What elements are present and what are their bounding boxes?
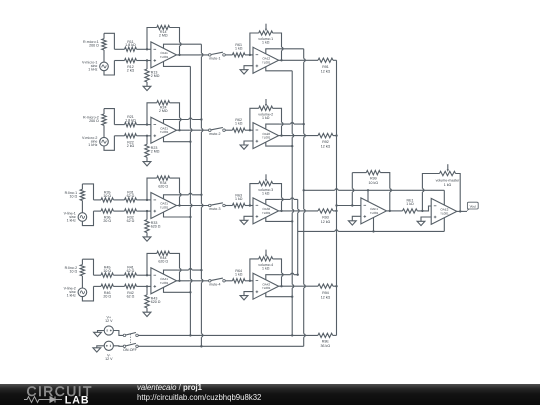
svg-text:Vout: Vout — [470, 204, 476, 208]
resistor R32 — [113, 209, 150, 223]
op-amp OA12 — [253, 47, 279, 73]
svg-text:1 kΩ: 1 kΩ — [444, 183, 452, 187]
svg-text:20 Ω: 20 Ω — [103, 219, 111, 223]
footer bar — [0, 384, 540, 405]
svg-text:R94: R94 — [322, 291, 329, 295]
op-amp OAE2 — [431, 198, 457, 224]
svg-text:620 Ω: 620 Ω — [158, 260, 168, 264]
ground — [143, 237, 151, 241]
svg-text:R92: R92 — [322, 140, 329, 144]
potentiometer volume-master — [422, 164, 461, 212]
switch mute-2 — [209, 128, 226, 136]
svg-text:62 Ω: 62 Ω — [127, 219, 135, 223]
svg-text:1 kHz: 1 kHz — [67, 294, 76, 298]
svg-text:2 MΩ: 2 MΩ — [159, 109, 168, 113]
svg-text:36 kΩ: 36 kΩ — [321, 344, 331, 348]
svg-text:12 V: 12 V — [105, 357, 113, 361]
wire — [104, 61, 114, 76]
wire V+ stub — [266, 199, 298, 204]
resistor R36 — [94, 209, 114, 223]
ground — [94, 331, 105, 337]
svg-text:TL081: TL081 — [160, 281, 169, 285]
op-amp OA42 — [253, 273, 279, 299]
ground — [143, 312, 151, 316]
resistor R46 — [94, 284, 114, 298]
wire V- stub — [164, 137, 192, 143]
svg-text:1 kHz: 1 kHz — [88, 143, 97, 147]
svg-text:62 Ω: 62 Ω — [127, 194, 135, 198]
wire — [177, 129, 209, 131]
potentiometer volume-3 — [250, 174, 283, 212]
switch mute-1 — [209, 52, 226, 60]
svg-text:1 kHz: 1 kHz — [67, 218, 76, 222]
svg-text:TL081: TL081 — [370, 211, 379, 215]
svg-text:12 kΩ: 12 kΩ — [321, 295, 331, 299]
wire V- stub — [266, 293, 294, 298]
svg-text:1 kΩ: 1 kΩ — [262, 191, 270, 195]
svg-text:mute-4: mute-4 — [209, 282, 220, 286]
svg-text:TL081: TL081 — [262, 136, 271, 140]
svg-text:10 Ω: 10 Ω — [103, 194, 111, 198]
ground — [93, 346, 104, 352]
wire summing V+ rail — [303, 189, 445, 191]
wire bus column 2b — [297, 199, 299, 274]
op-amp OAE1 — [361, 198, 387, 224]
svg-text:620 Ω: 620 Ω — [158, 184, 168, 188]
svg-text:62 Ω: 62 Ω — [127, 269, 135, 273]
resistor R13 — [145, 59, 160, 86]
resistor R9E — [318, 333, 337, 348]
svg-text:TL081: TL081 — [262, 211, 271, 215]
resistor R-line-2 — [65, 259, 85, 288]
wire OAE1 minus input — [337, 205, 361, 207]
resistor R61 — [225, 43, 250, 57]
svg-text:10 Ω: 10 Ω — [70, 194, 78, 198]
wire — [82, 184, 93, 200]
wire — [177, 280, 209, 282]
wire mix bus — [335, 60, 337, 335]
wire V- bus column 2 — [291, 71, 293, 337]
resistor R62 — [225, 118, 250, 132]
svg-text:620 Ω: 620 Ω — [151, 300, 161, 304]
voltage source V- — [104, 341, 113, 361]
resistor R94 — [279, 284, 338, 299]
wire — [104, 136, 114, 151]
svg-text:TL081: TL081 — [160, 55, 169, 59]
wire crossing hops — [178, 42, 425, 337]
output flag Vout — [457, 202, 478, 211]
wire — [82, 259, 93, 275]
wire V+ stub — [164, 118, 203, 123]
resistor R21 — [114, 115, 150, 127]
svg-text:12 V: 12 V — [105, 319, 113, 323]
op-amp OA21 — [151, 117, 177, 143]
wire V+ stub — [443, 190, 445, 205]
svg-text:R9E: R9E — [322, 340, 330, 344]
wire — [249, 280, 253, 282]
wire — [177, 205, 209, 207]
wire — [104, 109, 114, 125]
switch mute-3 — [209, 203, 226, 211]
wire — [113, 331, 123, 336]
resistor R12 — [114, 58, 150, 72]
ground — [240, 141, 253, 149]
wire — [177, 54, 209, 56]
svg-text:1.8 kΩ: 1.8 kΩ — [125, 43, 136, 47]
resistor R99 — [351, 170, 391, 212]
resistor R11 — [114, 40, 150, 52]
svg-text:1 kΩ: 1 kΩ — [262, 116, 270, 120]
wire V+ stub — [266, 274, 299, 280]
op-amp OA32 — [253, 198, 279, 224]
wire V- stub — [164, 62, 191, 67]
resistor R-micro-2 — [83, 109, 106, 138]
svg-text:ON-OFF: ON-OFF — [123, 348, 138, 352]
voltage source V-line-1 — [64, 211, 87, 222]
footer title text — [137, 383, 202, 392]
wire V+ stub — [266, 49, 304, 54]
switch ON-OFF — [123, 333, 138, 352]
svg-text:TL081: TL081 — [262, 286, 271, 290]
resistor R43 — [145, 285, 161, 312]
wire rail 2 — [138, 345, 303, 347]
resistor R91 — [279, 58, 337, 73]
svg-text:1 kΩ: 1 kΩ — [235, 122, 243, 126]
resistor R93 — [279, 209, 338, 224]
wire rail 1 — [138, 334, 318, 336]
svg-text:200 Ω: 200 Ω — [89, 119, 99, 123]
svg-text:mute-3: mute-3 — [209, 207, 220, 211]
resistor R64 — [225, 269, 250, 283]
wire V+ stub — [164, 44, 202, 48]
ground — [240, 292, 253, 300]
switch mute-4 — [209, 278, 226, 286]
ground — [240, 66, 253, 74]
svg-text:TL081: TL081 — [160, 130, 169, 134]
wire V- stub — [266, 67, 292, 71]
op-amp OA22 — [253, 123, 279, 149]
resistor R-line-1 — [65, 184, 85, 213]
resistor R23 — [145, 135, 160, 162]
svg-text:2 MΩ: 2 MΩ — [151, 74, 160, 78]
svg-text:TL081: TL081 — [262, 60, 271, 64]
wire V+ stub — [164, 269, 203, 274]
wire V- stub — [266, 142, 294, 147]
resistor R63 — [225, 194, 250, 208]
svg-text:12 kΩ: 12 kΩ — [321, 69, 331, 73]
wire V+ stub — [266, 123, 305, 129]
potentiometer volume-2 — [250, 99, 283, 137]
ground — [143, 162, 151, 166]
svg-text:2 MΩ: 2 MΩ — [159, 34, 168, 38]
svg-text:2 kΩ: 2 kΩ — [127, 144, 135, 148]
resistor R24 — [146, 101, 181, 132]
wire V+ stub — [367, 190, 369, 201]
op-amp OA11 — [151, 42, 177, 68]
ground — [240, 216, 253, 224]
wire — [249, 129, 253, 131]
svg-text:12 kΩ: 12 kΩ — [321, 220, 331, 224]
svg-text:10 Ω: 10 Ω — [70, 270, 78, 274]
wire V- stub — [266, 217, 294, 222]
wire — [104, 33, 114, 49]
wire — [82, 211, 93, 226]
resistor R14 — [146, 25, 181, 56]
resistor RE1 — [387, 198, 432, 213]
svg-text:10 Ω: 10 Ω — [103, 269, 111, 273]
voltage source V-line-2 — [64, 287, 87, 298]
wire summing V- rail — [298, 230, 445, 232]
resistor R22 — [114, 134, 150, 148]
wire — [249, 54, 253, 56]
ground — [417, 217, 431, 226]
op-amp OA31 — [151, 193, 177, 219]
wire V+ stub — [164, 194, 203, 199]
CircuitLab logo — [0, 384, 110, 405]
potentiometer volume-4 — [250, 250, 283, 288]
svg-text:1.8 kΩ: 1.8 kΩ — [125, 119, 136, 123]
svg-text:2 MΩ: 2 MΩ — [151, 149, 160, 153]
wire V- stub — [164, 212, 192, 218]
resistor R45 — [94, 266, 114, 278]
wire V- stub — [443, 218, 445, 232]
svg-text:1 kΩ: 1 kΩ — [235, 272, 243, 276]
wire V+ bus column 1 — [200, 44, 202, 347]
svg-text:R91: R91 — [322, 65, 329, 69]
svg-text:20 Ω: 20 Ω — [103, 294, 111, 298]
potentiometer volume-1 — [250, 24, 283, 62]
svg-text:1 kΩ: 1 kΩ — [262, 41, 270, 45]
wire V- bus column 1 — [189, 66, 191, 336]
svg-text:1 kΩ: 1 kΩ — [235, 197, 243, 201]
svg-text:TL081: TL081 — [440, 211, 449, 215]
wire — [113, 345, 123, 348]
svg-text:12 kΩ: 12 kΩ — [321, 145, 331, 149]
svg-text:1 kHz: 1 kHz — [88, 68, 97, 72]
svg-text:200 Ω: 200 Ω — [89, 44, 99, 48]
svg-text:mute-2: mute-2 — [209, 132, 220, 136]
voltage source V+ — [104, 315, 113, 335]
resistor R33 — [145, 210, 161, 237]
voltage source V-micro-2 — [82, 136, 108, 147]
footer url text — [137, 393, 261, 402]
svg-text:620 Ω: 620 Ω — [151, 225, 161, 229]
wire V+ bus column 2 — [303, 49, 305, 347]
resistor R34 — [146, 176, 181, 207]
svg-text:volume-master: volume-master — [436, 179, 461, 183]
svg-text:LAB: LAB — [65, 395, 90, 405]
svg-text:1 kΩ: 1 kΩ — [406, 202, 414, 206]
op-amp OA41 — [151, 268, 177, 294]
resistor R-micro-1 — [83, 33, 106, 62]
voltage source V-micro-1 — [82, 61, 108, 72]
wire — [249, 204, 253, 206]
svg-text:2 kΩ: 2 kΩ — [127, 69, 135, 73]
svg-text:R93: R93 — [322, 216, 329, 220]
resistor R44 — [146, 251, 181, 282]
wire — [82, 286, 93, 301]
svg-text:1 kΩ: 1 kΩ — [262, 267, 270, 271]
ground — [348, 216, 361, 225]
svg-text:TL081: TL081 — [160, 206, 169, 210]
resistor R41 — [113, 266, 150, 278]
svg-text:62 Ω: 62 Ω — [127, 294, 135, 298]
wire V- stub — [164, 287, 192, 293]
svg-text:1 kΩ: 1 kΩ — [235, 46, 243, 50]
resistor R92 — [279, 133, 338, 148]
svg-text:mute-1: mute-1 — [209, 57, 220, 61]
svg-text:10 kΩ: 10 kΩ — [369, 181, 379, 185]
ground — [143, 86, 151, 90]
wire V- stub — [373, 218, 375, 232]
svg-text:R99: R99 — [370, 177, 377, 181]
resistor R35 — [94, 190, 114, 202]
resistor R42 — [113, 284, 150, 298]
resistor R31 — [113, 190, 150, 202]
